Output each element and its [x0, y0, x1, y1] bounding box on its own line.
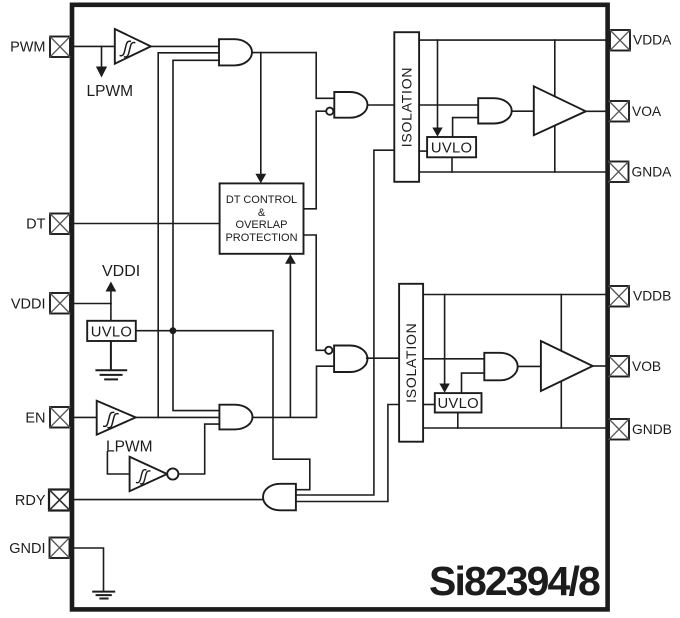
svg-text:PROTECTION: PROTECTION [225, 232, 297, 244]
pin VDDI [50, 293, 70, 314]
svg-text:GNDB: GNDB [632, 422, 672, 437]
svg-text:VDDB: VDDB [633, 289, 671, 304]
pin EN [50, 407, 70, 428]
pin GNDI [50, 538, 70, 559]
svg-text:DT: DT [26, 217, 45, 233]
wire UVLO-A to AND-A2 lower input [453, 118, 479, 137]
svg-text:EN: EN [25, 411, 45, 427]
pin GNDB [609, 419, 629, 440]
wire VDDI pin [70, 303, 111, 305]
AND gate A2 [478, 98, 512, 123]
isolation block A [394, 32, 419, 182]
wire RDY input from isolation B feedback [296, 405, 399, 502]
wire RDY gate output to RDY pin [70, 499, 263, 501]
wire GNDI pin to ground [70, 548, 104, 591]
wire NAND-A out to isolation A [368, 104, 395, 106]
wire EN pin to schmitt [70, 416, 97, 418]
UVLO block B [435, 393, 482, 412]
wire UVLO-I output to RDY gate [136, 331, 310, 490]
top rail VDDB [423, 294, 606, 296]
svg-text:ISOLATION: ISOLATION [403, 322, 419, 402]
pin DT [50, 214, 70, 235]
ground below UVLO-I [96, 341, 126, 379]
svg-text:GNDI: GNDI [9, 541, 45, 557]
wire AND-B2 out to driver B [518, 365, 541, 367]
arrowhead into UVLO-A [432, 128, 442, 137]
wire NAND-B out to isolation B [367, 357, 399, 359]
NAND-B gate [325, 346, 367, 373]
wire AND-A output to NAND-A [252, 53, 334, 99]
wire AND-A2 out to driver A [512, 110, 534, 112]
svg-text:UVLO: UVLO [431, 141, 473, 157]
wire EN schmitt to AND gate EN [136, 416, 220, 418]
pin RDY [49, 490, 70, 511]
arrowhead into DT control bottom [285, 254, 296, 264]
svg-text:RDY: RDY [15, 493, 46, 509]
power vertical A [554, 40, 556, 172]
RDY gate (left-facing AND) [263, 484, 296, 511]
bubble inverter output [167, 468, 178, 479]
wire PWM pin to schmitt [70, 45, 115, 47]
NAND-A gate [326, 92, 367, 118]
wire DT out1 to NAND-A bubble [304, 111, 327, 209]
AND gate B2 [484, 353, 517, 381]
UVLO block A [427, 137, 476, 157]
bubble NAND-B input [325, 347, 332, 354]
AND gate EN (3-input) [219, 405, 252, 430]
wire UVLO-I vertical (AND-A input3) [173, 60, 219, 410]
AND gate A (3-input, top) [219, 39, 252, 65]
wire rail branch to UVLO-B [444, 295, 446, 385]
svg-text:UVLO: UVLO [91, 324, 133, 340]
wire driver B out to VOB [593, 365, 606, 367]
svg-text:LPWM: LPWM [87, 83, 134, 100]
svg-text:VDDA: VDDA [633, 33, 672, 48]
chip border [72, 5, 608, 610]
inverter LPWM (schmitt) [130, 457, 179, 491]
wire UVLO-A to GNDA rail [451, 157, 453, 172]
wire EN AND out to DT control bottom [289, 263, 291, 416]
bubble NAND-A input [326, 108, 333, 115]
svg-text:&: & [258, 207, 266, 219]
svg-text:Si82394/8: Si82394/8 [429, 558, 600, 604]
wire VDDI down to UVLO-I [110, 304, 112, 321]
arrowhead LPWM down [96, 67, 107, 78]
wire DT pin to block [70, 223, 220, 225]
wire driver A out to VOA [586, 110, 606, 112]
svg-text:ISOLATION: ISOLATION [399, 67, 415, 147]
wire isolation A out to AND-A2 [419, 104, 478, 106]
wire isolation B out to AND-B2 [423, 358, 484, 360]
svg-text:VOB: VOB [632, 359, 661, 374]
top rail VDDA [419, 39, 606, 41]
DT control block [220, 183, 304, 253]
wire EN feedback vertical (AND-A input2) [158, 53, 219, 418]
svg-text:VOA: VOA [632, 104, 662, 119]
wire VDDI arrow up [110, 291, 112, 304]
wire DT out2 to NAND-B bubble [304, 235, 326, 350]
svg-text:PWM: PWM [10, 40, 45, 56]
pin VDDA [610, 30, 630, 51]
arrowhead VDDI up [106, 282, 117, 292]
svg-text:OVERLAP: OVERLAP [236, 219, 288, 231]
UVLO block input side [87, 321, 136, 341]
wire UVLO-B to AND-B2 lower input [462, 373, 485, 393]
wire EN AND out to NAND-B [253, 366, 334, 417]
schmitt buffer PWM [115, 29, 151, 64]
wire schmitt PWM out to AND gate A [151, 45, 219, 47]
pin VOA [609, 101, 629, 122]
power vertical B [560, 295, 562, 429]
ground GNDI [93, 592, 114, 599]
wire rail branch to UVLO-A [437, 40, 439, 128]
schmitt buffer EN [97, 401, 136, 435]
driver buffer B [541, 341, 593, 391]
pin GNDA [609, 162, 629, 183]
svg-text:UVLO: UVLO [437, 396, 479, 412]
wire LPWM tap down [101, 46, 103, 67]
svg-text:VDDI: VDDI [11, 297, 46, 313]
isolation block B [399, 284, 423, 442]
DT control block text [225, 194, 297, 244]
GNDB rail [423, 427, 606, 429]
pin PWM [50, 37, 70, 58]
junction dot UVLO-I / AND-A feedback [170, 327, 177, 334]
wire UVLO-B to GNDB rail [457, 413, 459, 429]
GNDA rail [419, 171, 606, 173]
pin VOB [609, 356, 629, 377]
arrowhead into UVLO-B [439, 384, 449, 393]
svg-text:LPWM: LPWM [106, 439, 153, 456]
svg-text:VDDI: VDDI [102, 263, 140, 280]
wire RDY input from isolation A feedback [296, 150, 394, 495]
wire branch to DT control top [260, 53, 262, 175]
wire isolation A to UVLO-A left [419, 150, 427, 152]
pin VDDB [609, 286, 629, 307]
svg-text:GNDA: GNDA [632, 164, 673, 179]
wire LPWM stub into inverter [107, 452, 129, 474]
driver buffer A [534, 86, 586, 135]
wire inverter out to AND gate EN [178, 424, 219, 474]
svg-text:DT CONTROL: DT CONTROL [226, 194, 297, 206]
arrowhead into DT control top [255, 174, 266, 183]
wire isolation B to UVLO-B left [423, 404, 435, 406]
